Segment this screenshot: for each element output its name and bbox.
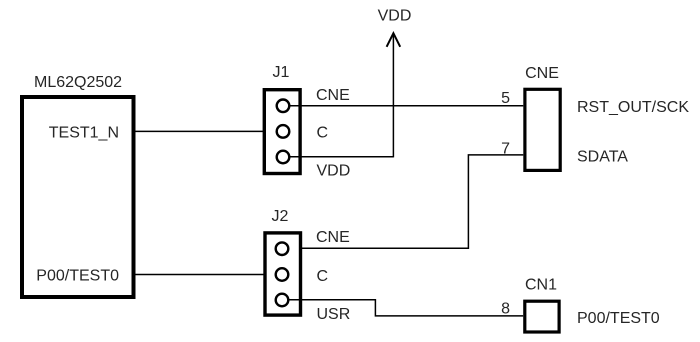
connector J1: [264, 90, 300, 174]
IC U1 ML62Q2502: [22, 97, 134, 297]
J2 pin2 circle: [276, 268, 289, 281]
wire J2 pin1 to CNE pin7: [289, 155, 523, 248]
wire VDD vertical: [392, 34, 394, 158]
svg-text:CNE: CNE: [316, 87, 350, 104]
J1 pin3 circle: [277, 151, 290, 164]
wire J1 pin3 to VDD: [289, 156, 393, 158]
svg-text:C: C: [317, 125, 329, 142]
svg-text:5: 5: [501, 90, 510, 107]
wire J1 pin1 to CNE pin5: [289, 105, 523, 107]
svg-text:CNE: CNE: [525, 65, 559, 82]
power symbol VDD arrow: [387, 33, 401, 47]
connector CN1: [525, 301, 559, 332]
svg-text:VDD: VDD: [317, 162, 351, 179]
svg-text:RST_OUT/SCK: RST_OUT/SCK: [577, 99, 689, 116]
svg-text:J2: J2: [272, 208, 289, 225]
svg-text:USR: USR: [317, 306, 351, 323]
svg-text:CN1: CN1: [525, 277, 557, 294]
svg-text:C: C: [317, 268, 329, 285]
wire P00/TEST0 to J2 pin2: [133, 274, 276, 276]
J1 pin1 circle: [277, 100, 290, 113]
svg-text:SDATA: SDATA: [577, 149, 628, 166]
svg-text:J1: J1: [273, 64, 290, 81]
connector CNE: [525, 89, 560, 170]
connector J2: [265, 233, 301, 315]
wire J2 pin3 to CN1 pin8: [288, 300, 523, 316]
svg-text:8: 8: [501, 301, 510, 318]
J2 pin1 circle: [276, 242, 289, 255]
svg-text:P00/TEST0: P00/TEST0: [36, 268, 119, 285]
svg-text:TEST1_N: TEST1_N: [49, 125, 119, 142]
J2 pin3 circle: [276, 294, 289, 307]
svg-text:VDD: VDD: [378, 7, 412, 24]
wire TEST1_N to J1 pin2: [133, 130, 277, 132]
J1 pin2 circle: [277, 125, 290, 138]
svg-text:P00/TEST0: P00/TEST0: [577, 310, 660, 327]
svg-text:CNE: CNE: [316, 229, 350, 246]
svg-text:ML62Q2502: ML62Q2502: [34, 74, 122, 91]
